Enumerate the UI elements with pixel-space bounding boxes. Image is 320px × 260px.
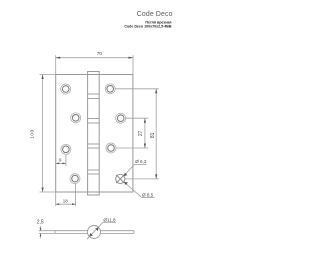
screw hole R1 bbox=[105, 84, 115, 94]
dimension 70 (top width) bbox=[56, 55, 133, 74]
svg-text:Code Deco 100х70х2,5-4BB: Code Deco 100х70х2,5-4BB bbox=[124, 25, 172, 29]
svg-text:18: 18 bbox=[63, 198, 68, 203]
dimension 27 (right, holes R2-R3) bbox=[116, 118, 149, 148]
dimension 100 (left height) bbox=[40, 75, 56, 193]
dimension 9 (left edge to hole L3) bbox=[56, 155, 66, 166]
svg-text:81: 81 bbox=[150, 132, 156, 138]
side view: barrel circle bbox=[88, 226, 101, 239]
screw hole R4 with countersunk screw cross bbox=[116, 174, 125, 183]
knuckle division pair 2 bbox=[88, 119, 100, 124]
svg-text:100: 100 bbox=[30, 129, 36, 139]
leader Ø 8,5 (countersink diameter) bbox=[124, 182, 155, 198]
svg-text:70: 70 bbox=[97, 51, 103, 56]
side view: right leaf bar bbox=[100, 231, 134, 234]
screw hole L3 bbox=[61, 144, 71, 154]
screw hole R2 bbox=[116, 113, 126, 123]
screw hole L4 bbox=[70, 174, 80, 184]
screw hole R3 bbox=[106, 143, 116, 153]
svg-text:27: 27 bbox=[138, 130, 144, 136]
knuckle division pair 3 bbox=[88, 144, 100, 148]
dimension 81 (right, holes R1-R4) bbox=[115, 89, 159, 179]
screw hole L2 bbox=[71, 113, 81, 123]
svg-text:2,5: 2,5 bbox=[37, 219, 44, 225]
barrel (knuckle column) bbox=[88, 72, 100, 196]
leader Ø11,8 (barrel diameter) bbox=[87, 222, 116, 239]
svg-text:Ø 8,5: Ø 8,5 bbox=[142, 193, 154, 198]
knuckle division pair 4 bbox=[88, 170, 100, 174]
dimension 2,5 (leaf thickness) bbox=[39, 226, 55, 238]
svg-text:Ø 6,3: Ø 6,3 bbox=[135, 159, 147, 164]
hinge leaves outline (front view) bbox=[56, 75, 133, 193]
leader Ø 6,3 (hole diameter) bbox=[123, 164, 146, 176]
svg-text:Ø11,8: Ø11,8 bbox=[103, 217, 116, 222]
dimension 18 (left edge to hole L4) bbox=[56, 184, 76, 206]
knuckle division pair 1 bbox=[88, 94, 100, 99]
side view: left leaf bar bbox=[55, 231, 88, 234]
svg-text:Code Deco: Code Deco bbox=[137, 11, 173, 18]
screw hole L1 bbox=[61, 84, 71, 94]
